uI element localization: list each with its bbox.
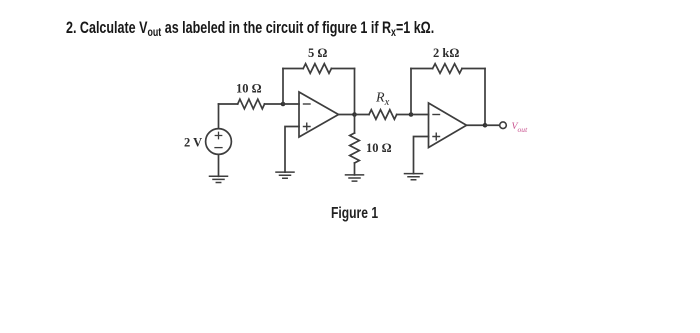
svg-text:5 Ω: 5 Ω [308,46,327,60]
output terminal open circle [500,122,507,129]
wire feedback top left to R2 [283,68,303,70]
wire Rx to node C [397,114,411,116]
wire R1 to node A [265,103,284,105]
resistor R4 2 kohm feedback [433,64,462,74]
wire U2 plus input to ground stub [414,137,429,174]
svg-text:2 kΩ: 2 kΩ [433,46,459,60]
svg-text:2 V: 2 V [184,136,202,150]
op-amp U1 [299,92,339,137]
resistor R3 10 ohm to ground [350,133,360,163]
node C junction dot [409,112,414,117]
wire U1 plus input to ground stub [285,127,299,173]
resistor Rx [369,110,397,120]
wire output node to terminal [485,124,500,126]
ground G3 (R3) [346,175,364,181]
ground G1 (source) [210,176,228,182]
svg-text:Figure 1: Figure 1 [331,204,378,222]
svg-text:2. Calculate Vout as labeled i: 2. Calculate Vout as labeled in the circ… [66,18,434,39]
ground G4 (U2 plus input) [405,174,423,180]
wire node B down to R3 [354,115,356,134]
V1 plus sign [215,132,221,138]
node B junction dot [352,112,357,117]
svg-text:10 Ω: 10 Ω [366,141,392,155]
svg-text:Rx: Rx [375,91,390,109]
wire feedback riser right 2 down to output node [484,69,486,126]
wire U1 output to node B [339,114,355,116]
voltage source V1 (2 V) [206,129,232,155]
wire source bottom to ground [218,154,220,176]
wire R4 to feedback riser right 2 [462,68,485,70]
U2 non-inverting pin plus sign [433,133,440,140]
wire R3 to ground [354,163,356,175]
V1 minus sign [215,147,222,149]
wire input rail to R1 [219,103,238,105]
op-amp U2 [429,103,467,148]
wire node A to U1 inverting input [283,103,299,105]
wire feedback riser right down to node B [354,69,356,115]
wire feedback riser left (node A up) [282,69,284,105]
wire U2 output to output node [467,124,486,126]
U1 inverting pin minus sign [304,103,311,105]
output node junction dot [483,123,488,128]
wire R2 to feedback riser right [331,68,354,70]
svg-text:10 Ω: 10 Ω [236,82,262,96]
U1 non-inverting pin plus sign [304,123,311,130]
wire feedback top to R4 [411,68,433,70]
wire node C to U2 inverting input [411,114,429,116]
ground G2 (U1 plus input) [276,172,294,178]
wire node B to Rx [355,114,370,116]
wire feedback riser left 2 (node C up) [410,69,412,115]
node A junction dot [281,102,286,107]
wire source top to input rail [218,104,220,129]
resistor R2 5 ohm feedback [303,64,331,74]
svg-text:Vout: Vout [512,121,529,134]
resistor R1 10 ohm [238,99,265,109]
U2 inverting pin minus sign [433,114,440,116]
